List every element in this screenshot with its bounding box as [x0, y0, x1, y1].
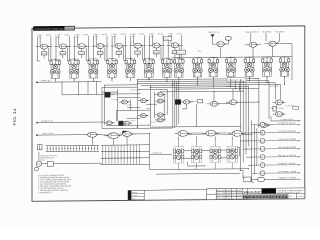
flip-flop FF18: [227, 141, 237, 169]
gate G8: [167, 43, 183, 48]
delay box D1: [177, 50, 202, 54]
svg-text:1 MIN: 1 MIN: [130, 34, 136, 36]
IC U2: [105, 92, 115, 97]
wire stub stage 8: [168, 35, 182, 60]
svg-text:4-7: 4-7: [232, 198, 236, 200]
wire bus B vertical: [240, 79, 248, 170]
one-shot OS3: [229, 130, 258, 136]
svg-text:X2 CL: X2 CL: [120, 34, 126, 36]
svg-text:1 MIN: 1 MIN: [93, 34, 99, 36]
svg-text:SYNCHRONIZER TIMING UNIT: SYNCHRONIZER TIMING UNIT: [35, 28, 65, 30]
wire clock out: [271, 116, 301, 122]
svg-text:1 MIN: 1 MIN: [111, 34, 117, 36]
gate G26: [273, 112, 286, 117]
gate G30: [105, 133, 122, 139]
label pair stage 8: [168, 33, 183, 37]
svg-text:OSC 1 MC: OSC 1 MC: [42, 133, 54, 135]
gate G17: [155, 92, 166, 96]
title block: [207, 188, 305, 200]
svg-text:4-7: 4-7: [232, 195, 236, 197]
svg-text:X2 CL: X2 CL: [102, 34, 108, 36]
input line OSC: [36, 133, 87, 136]
gate G7: [148, 43, 164, 48]
label G25 out: [285, 105, 294, 107]
flip-flop FF11: [226, 57, 237, 79]
gate G18: [155, 99, 166, 103]
connector pin P1-H: [252, 170, 301, 175]
svg-text:TIME CODE: TIME CODE: [278, 177, 297, 179]
svg-text:H: H: [262, 172, 264, 175]
svg-text:1 MIN: 1 MIN: [37, 35, 43, 37]
flip-flop FF17: [210, 141, 220, 169]
label cluster top: [130, 88, 140, 91]
resistor box R5: [116, 48, 122, 57]
one-shot OS2: [202, 130, 231, 136]
svg-text:GATE OUT: GATE OUT: [278, 162, 298, 165]
gate G3: [73, 44, 89, 49]
label cluster 2: [127, 105, 133, 107]
connector pin P1-E: [252, 154, 301, 160]
connector pin P1-F: [252, 162, 301, 168]
svg-text:CHKD: CHKD: [132, 195, 137, 197]
label pair stage 4: [93, 34, 108, 38]
gate G14: [121, 121, 132, 125]
svg-text:4.7K: 4.7K: [42, 53, 46, 55]
flip-flop FF15: [173, 141, 183, 169]
input line CLOCK IN: [36, 80, 101, 83]
title block number row: [243, 194, 305, 199]
wire cluster bottom: [102, 125, 173, 129]
gate G12: [119, 100, 130, 104]
svg-text:SET: SET: [146, 108, 151, 110]
svg-text:4.7K: 4.7K: [154, 52, 158, 54]
wire one-shot drops: [92, 136, 127, 145]
resistor box R3: [79, 49, 85, 58]
wire left mesh: [62, 82, 104, 95]
flip-flop FF5: [125, 58, 136, 80]
resistor box R4: [97, 49, 103, 58]
svg-text:FIG. 14: FIG. 14: [12, 108, 17, 126]
flip-flop FF10: [208, 57, 219, 79]
svg-text:+28V DC IN: +28V DC IN: [208, 32, 221, 34]
wire one-shot row: [97, 126, 252, 170]
svg-text:FF 1 SEC: FF 1 SEC: [112, 99, 120, 101]
label +5V INT: [270, 106, 299, 109]
svg-text:4.7K: 4.7K: [117, 52, 121, 54]
wire stub stage 3: [75, 36, 89, 61]
connector pin P1-B: [252, 130, 301, 135]
wire stub stage 4: [93, 36, 107, 61]
svg-text:4-7: 4-7: [232, 190, 236, 192]
svg-text:ALM 1 PPS: ALM 1 PPS: [278, 154, 298, 157]
svg-text:1 PPS IN: 1 PPS IN: [40, 80, 52, 82]
svg-text:SIG ALRM PWR: SIG ALRM PWR: [278, 146, 297, 149]
label pair stage 3: [74, 34, 89, 38]
label top right 3: [262, 31, 273, 33]
flip-flop FF2: [69, 58, 80, 80]
flip-flop FF6: [144, 57, 155, 79]
flip-flop FF4: [107, 58, 118, 80]
label cluster 3: [146, 108, 151, 110]
resistor box R6: [135, 48, 141, 57]
label cluster 4: [131, 120, 136, 122]
label pair stage 7: [149, 33, 164, 37]
svg-text:4-7: 4-7: [232, 192, 236, 194]
buffer B1: [240, 170, 257, 182]
svg-text:DR: DR: [132, 198, 135, 200]
gate G4: [92, 43, 108, 48]
svg-text:SM-D-847: SM-D-847: [243, 191, 263, 194]
label cluster sheet: [151, 120, 163, 123]
svg-text:4.7K: 4.7K: [79, 53, 83, 55]
flip-flop FF7: [162, 57, 173, 79]
flip-flop FF8: [174, 57, 185, 79]
gate G6: [129, 43, 145, 48]
ground: [35, 166, 39, 171]
svg-text:RST: RST: [131, 120, 136, 122]
svg-text:+5V REG: +5V REG: [262, 31, 273, 33]
svg-text:4.7K: 4.7K: [98, 53, 102, 55]
wire stub stage 5: [112, 36, 126, 61]
gate G11: [264, 41, 280, 46]
label U1 out: [192, 100, 204, 103]
input line GATE: [150, 151, 172, 154]
gate G16: [138, 114, 149, 118]
wire mid-right mesh: [160, 79, 259, 127]
svg-text:10K: 10K: [164, 39, 169, 41]
connector pin P1-D: [252, 146, 301, 152]
resistor box R2: [60, 49, 66, 58]
power flag E1: [211, 34, 214, 44]
wire right cluster: [259, 79, 281, 128]
wire stub stage 6: [131, 35, 145, 60]
notes text block: [38, 175, 72, 194]
svg-text:X2 CL: X2 CL: [158, 33, 164, 35]
gate G19: [155, 113, 166, 117]
resistor box R11: [38, 145, 42, 150]
flip-flop FF16: [191, 141, 201, 169]
label top right 4: [275, 31, 286, 33]
gate G5: [111, 43, 127, 48]
wire title extension line: [144, 189, 206, 190]
gate G2: [55, 44, 71, 49]
wire connector bus: [240, 120, 260, 182]
resistor box R10: [273, 106, 277, 111]
wire row2 links: [184, 150, 227, 158]
input line RESET: [36, 120, 104, 123]
figure label FIG: [12, 108, 17, 126]
label top right 2: [246, 32, 259, 34]
gate G1: [36, 44, 52, 49]
gate G29: [84, 132, 100, 137]
svg-text:4.7K: 4.7K: [61, 53, 65, 55]
gate G27: [257, 123, 270, 128]
resistor box R8: [172, 48, 178, 57]
svg-text:+5V BUS: +5V BUS: [269, 86, 280, 88]
label pair stage 2: [55, 34, 70, 38]
svg-text:X2 CL: X2 CL: [177, 33, 183, 35]
svg-text:1 OF 2: 1 OF 2: [297, 196, 304, 198]
resistor box R9: [198, 99, 203, 102]
gate G24: [226, 100, 240, 105]
resistor box R12: [48, 161, 54, 166]
svg-text:DEC-A 1 5 3 0 4 7 1 1 2 A: DEC-A 1 5 3 0 4 7 1 1 2 A: [243, 196, 288, 199]
svg-text:X2 CL: X2 CL: [83, 34, 89, 36]
crystal Y1: [36, 161, 41, 166]
svg-text:X2 CL: X2 CL: [64, 34, 70, 36]
junction dots bus: [137, 78, 260, 172]
gate G20: [155, 118, 166, 122]
svg-text:(SEE NOTE 3): (SEE NOTE 3): [246, 32, 259, 34]
svg-text:4.7K: 4.7K: [135, 52, 139, 54]
title block part number: [243, 188, 304, 194]
wire right rail: [172, 46, 292, 81]
connector pin P1-A: [252, 122, 301, 127]
IC U4: [122, 131, 126, 135]
svg-text:1 MIN: 1 MIN: [74, 34, 80, 36]
output gate G33: [257, 177, 300, 182]
gate G15: [138, 99, 149, 103]
svg-text:1 MIN: 1 MIN: [55, 34, 61, 36]
gate G9: [212, 42, 228, 47]
wire row2 bottom: [150, 136, 248, 174]
IC U3: [119, 121, 124, 126]
svg-text:X2 CL: X2 CL: [139, 34, 145, 36]
capacitor C1: [225, 36, 231, 44]
svg-text:SCH 01: SCH 01: [65, 28, 74, 30]
svg-text:1 MIN: 1 MIN: [149, 34, 155, 36]
svg-text:BUFFER AMP: BUFFER AMP: [226, 85, 237, 88]
label top right 1: [208, 32, 221, 34]
diode matrix grid 1: [46, 145, 100, 152]
gate G25: [273, 100, 286, 105]
svg-text:+5V INT BUS: +5V INT BUS: [270, 108, 284, 110]
wire osc: [39, 144, 101, 165]
resistor box R8A: [164, 37, 172, 41]
svg-text:1 MIN: 1 MIN: [168, 33, 174, 35]
flip-flop FF9: [192, 57, 203, 79]
svg-text:SYNC 60: SYNC 60: [278, 171, 296, 173]
label cluster 1: [112, 99, 120, 101]
flip-flop FF1: [50, 58, 61, 80]
wire top right drops: [251, 33, 292, 57]
wire stub stage 1: [37, 36, 51, 61]
wire stub stage 7: [150, 35, 164, 60]
svg-text:ONE SHOT MULT: ONE SHOT MULT: [229, 80, 245, 82]
label right bus: [269, 86, 280, 88]
IC U1: [175, 100, 181, 105]
svg-text:TP1: TP1: [198, 51, 202, 53]
flip-flop FF14: [279, 56, 290, 78]
wire FF drops: [55, 76, 285, 89]
svg-text:SYNCHRONIZER UNIT: SYNCHRONIZER UNIT: [277, 192, 301, 194]
flip-flop FF13: [262, 56, 273, 78]
header label bar: [33, 26, 75, 31]
svg-text:+12V REG: +12V REG: [275, 31, 286, 33]
wire cluster frame: [102, 79, 179, 128]
svg-text:DLY 1: DLY 1: [177, 52, 184, 54]
one-shot OS1: [174, 130, 203, 136]
stamp box: [128, 190, 144, 200]
flip-flop FF12: [244, 56, 255, 78]
connector pin P1-C: [252, 138, 301, 144]
svg-text:RESET IN: RESET IN: [42, 121, 54, 123]
gate G13: [104, 121, 115, 125]
gate G22: [180, 100, 192, 105]
label pair stage 6: [130, 34, 145, 38]
svg-text:D: D: [262, 148, 264, 151]
gate G31: [119, 132, 135, 137]
svg-text:OVEN CONTROLLED: OVEN CONTROLLED: [40, 157, 55, 159]
resistor box R1: [41, 49, 47, 58]
svg-text:C: C: [262, 140, 264, 143]
title block revision texts: [217, 189, 243, 200]
label box ONE SHOT: [227, 78, 246, 82]
svg-text:8. SEE SHEET 2: 8. SEE SHEET 2: [38, 192, 52, 194]
svg-text:1 PPS OUT: 1 PPS OUT: [278, 123, 298, 125]
label pair stage 1: [37, 35, 52, 39]
svg-text:+5V ALRT PWR: +5V ALRT PWR: [278, 138, 297, 141]
gate G23: [207, 101, 221, 106]
flip-flop FF3: [88, 58, 99, 80]
resistor box R7: [154, 48, 160, 57]
gate G10: [245, 42, 261, 47]
svg-text:CLOCK 9 PPS: CLOCK 9 PPS: [278, 131, 297, 133]
label SR FF: [226, 85, 237, 88]
svg-text:1 MIN CLK: 1 MIN CLK: [281, 119, 295, 121]
wire bus A: [138, 78, 281, 87]
label osc values: [40, 154, 57, 161]
label pair stage 5: [111, 34, 126, 38]
wire stub stage 2: [56, 36, 70, 61]
svg-text:X2 CL: X2 CL: [46, 35, 52, 37]
diode matrix grid 2: [101, 145, 150, 165]
